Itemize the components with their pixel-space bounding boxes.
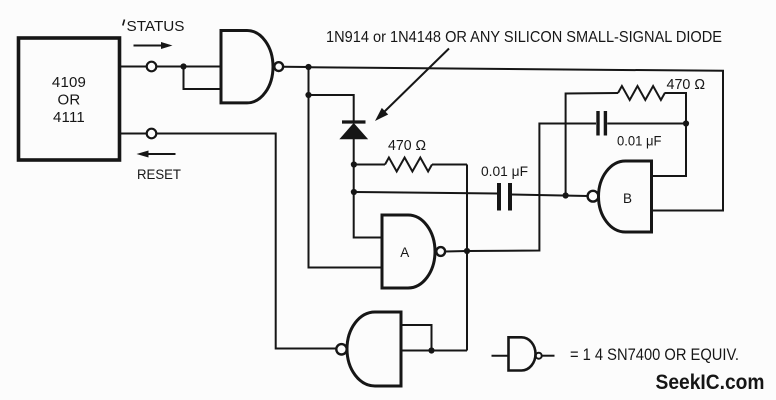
svg-text:470 Ω: 470 Ω xyxy=(667,77,706,93)
node: R1 left xyxy=(351,161,357,167)
tick before STATUS label xyxy=(123,20,125,26)
capacitor C1 0.01uF plates xyxy=(497,183,501,211)
wire: long vertical through A output node down to G4 inputs xyxy=(466,165,468,351)
bubble of G5 output xyxy=(536,353,542,359)
wire: G4 upper input loop xyxy=(403,325,432,351)
resistor R1 470 ohm xyxy=(385,158,432,172)
IC box 4109/4111 xyxy=(19,38,120,160)
wire: A output to node xyxy=(445,250,467,253)
node: G1 output junction xyxy=(305,64,311,70)
wire: reset stub from box to terminal xyxy=(121,133,147,135)
resistor R2 470 ohm xyxy=(618,86,665,100)
bubble of G4 output xyxy=(336,344,346,354)
svg-text:470 Ω: 470 Ω xyxy=(388,138,426,154)
wire: tied-input loop into G1 lower input xyxy=(184,67,222,90)
wire: R1 right lead xyxy=(432,164,467,166)
svg-text:0.01 μF: 0.01 μF xyxy=(617,134,661,149)
wire: G5 input stub xyxy=(492,355,509,357)
NAND gate G4 (bottom, mirrored) xyxy=(347,312,401,386)
wire: R2 right lead down through node to B upper input xyxy=(652,93,687,176)
wire: G5 output stub xyxy=(542,355,555,357)
svg-text:RESET: RESET xyxy=(137,167,181,182)
diode D1 (1N914) cathode bar xyxy=(342,120,366,123)
small example NAND gate G5 xyxy=(509,337,536,370)
svg-text:STATUS: STATUS xyxy=(127,18,185,35)
node: G4 input tie xyxy=(428,347,434,353)
wire: C1 left wire xyxy=(354,192,497,194)
node: status junction xyxy=(180,63,186,69)
NAND gate G1 (top) xyxy=(221,31,273,103)
svg-text:1N914 or 1N4148 OR ANY SILICO: 1N914 or 1N4148 OR ANY SILICON SMALL-SIG… xyxy=(326,29,722,46)
svg-text:4109: 4109 xyxy=(52,74,86,91)
wire: R1 left lead xyxy=(354,164,385,166)
wire: B output node up and R2 left lead xyxy=(566,93,618,196)
wire: long top rail to right corner, down to B lower input xyxy=(309,67,724,210)
svg-text:A: A xyxy=(400,245,409,260)
node: B output junction xyxy=(563,192,569,198)
wire: diode column down to gate A upper input xyxy=(354,139,382,238)
wire: G1 output to node xyxy=(283,66,308,68)
terminal RESET (open circle) xyxy=(147,129,157,139)
svg-text:= 1 4 SN7400 OR EQUIV.: = 1 4 SN7400 OR EQUIV. xyxy=(570,345,739,364)
NAND gate A xyxy=(382,215,435,288)
node: branch to diode xyxy=(305,92,311,98)
NAND gate B (mirrored) xyxy=(599,161,652,232)
wire: A output node right and up to C2 xyxy=(467,124,596,252)
wire: reset terminal right, down, to G4 output bubble xyxy=(157,134,337,349)
terminal STATUS (open circle) xyxy=(147,62,157,72)
arrow RESET (left) xyxy=(147,153,176,155)
wire: C1 right wire to B output bubble xyxy=(512,195,588,197)
svg-text:4111: 4111 xyxy=(53,109,85,126)
arrow STATUS (right) xyxy=(134,45,164,47)
wire: branch to diode top xyxy=(309,95,354,121)
svg-text:0.01 μF: 0.01 μF xyxy=(481,163,528,179)
capacitor C2 0.01uF plates xyxy=(596,111,599,136)
wire: status terminal to gate G1 input xyxy=(157,66,222,68)
wire: G4 lower input to long vertical xyxy=(403,350,468,352)
wire: C2 right wire xyxy=(607,123,686,125)
node: C2/R2 right junction xyxy=(683,120,689,126)
diode D1 triangle xyxy=(341,124,367,139)
wire: status stub from box to terminal xyxy=(121,66,147,68)
wire: vertical from G1 output node down to gate A lower input xyxy=(309,67,383,268)
bubble of G1 output xyxy=(274,62,283,71)
bubble of A output xyxy=(436,247,445,256)
bubble of B output xyxy=(588,191,599,202)
svg-text:OR: OR xyxy=(58,92,81,109)
svg-text:SeekIC.com: SeekIC.com xyxy=(656,370,765,394)
node: C1 left xyxy=(351,189,357,195)
node: A output junction xyxy=(464,248,470,254)
svg-text:B: B xyxy=(623,191,632,206)
arrow pointer from label to diode xyxy=(383,49,449,114)
